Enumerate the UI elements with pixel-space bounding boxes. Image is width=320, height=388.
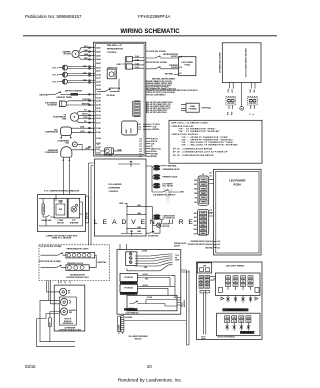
- svg-text:CONTROL: CONTROL: [107, 52, 118, 54]
- ice maker connector left: [226, 83, 236, 116]
- dispenser control title: [118, 161, 140, 167]
- lmp riser wires: [204, 277, 216, 335]
- svg-text:REFRIGERATOR: REFRIGERATOR: [107, 47, 123, 50]
- svg-text:COM: COM: [83, 117, 88, 119]
- board right edge pin labels for output rows: [139, 137, 142, 158]
- ice n water solenoid: [45, 99, 95, 107]
- svg-text:LINE: LINE: [228, 89, 230, 92]
- svg-text:NEUTRAL: NEUTRAL: [40, 93, 50, 96]
- FF door switch schem: [41, 246, 66, 255]
- svg-text:EMF-2600++ V5: EMF-2600++ V5: [107, 45, 123, 47]
- svg-text:J2-7: J2-7: [139, 156, 142, 158]
- board left pin labels: [96, 46, 101, 154]
- title rule: [23, 35, 277, 37]
- thermistor NTC 3: [53, 79, 95, 84]
- svg-text:J3-A2: J3-A2: [96, 97, 101, 100]
- display electronics box 1 wires: [138, 276, 176, 278]
- svg-text:RED: RED: [84, 58, 89, 60]
- standard compressor: [45, 147, 95, 161]
- strip wire color labels: [194, 180, 199, 236]
- svg-text:J2-1: J2-1: [138, 124, 141, 126]
- svg-text:DISPENSER VALVE: DISPENSER VALVE: [163, 168, 181, 171]
- svg-text:J1-7: J1-7: [139, 146, 142, 148]
- condenser fan: [57, 141, 90, 150]
- svg-text:INTERFACE: INTERFACE: [63, 322, 74, 325]
- svg-text:BRN: BRN: [194, 229, 197, 231]
- svg-text:J2-A3: J2-A3: [96, 114, 101, 117]
- svg-text:GND: GND: [145, 279, 148, 281]
- defrost switch wire: [97, 79, 120, 97]
- svg-text:J2-1: J2-1: [179, 73, 182, 75]
- svg-text:GROUNDED BACK PANEL: GROUNDED BACK PANEL: [219, 52, 222, 73]
- svg-text:J1-B1: J1-B1: [96, 153, 101, 155]
- svg-text:SW: SW: [69, 312, 72, 314]
- FF door switch schem wire: [146, 51, 179, 58]
- cube crush ice gate solenoid: [146, 207, 176, 234]
- svg-text:N: N: [253, 114, 255, 115]
- svg-text:SOME P.T.C. DEVICES: SOME P.T.C. DEVICES: [52, 238, 72, 240]
- svg-text:EMF-2600++ V5 ERROR CODES:: EMF-2600++ V5 ERROR CODES:: [172, 123, 209, 125]
- display led cluster box: [126, 252, 137, 266]
- svg-text:J2-A4: J2-A4: [96, 110, 101, 113]
- svg-text:J2-A5: J2-A5: [96, 107, 101, 110]
- svg-text:J3-A3: J3-A3: [96, 93, 101, 96]
- svg-text:LIGHT: LIGHT: [201, 339, 206, 341]
- connector strip J3 upper: [198, 172, 214, 205]
- svg-text:AUGER SW: AUGER SW: [148, 235, 158, 238]
- board defrost relay: [96, 144, 122, 156]
- led light wiring box: [196, 262, 262, 340]
- svg-text:+12V BL: +12V BL: [142, 285, 148, 287]
- svg-text:SOLENOID: SOLENOID: [47, 104, 57, 106]
- led module inner box lower: [217, 313, 261, 336]
- svg-text:(FF DOOR SW. SCHEM): (FF DOOR SW. SCHEM): [41, 246, 62, 248]
- svg-text:RUN: RUN: [59, 209, 62, 211]
- svg-text:ICE GATE SOL: ICE GATE SOL: [163, 217, 177, 220]
- svg-text:TO FF: TO FF: [175, 255, 179, 257]
- svg-text:NEUTRAL: NEUTRAL: [98, 261, 108, 264]
- svg-text:RED: RED: [194, 189, 197, 191]
- display board outline: [117, 250, 181, 315]
- svg-text:MOTOR: MOTOR: [163, 226, 170, 228]
- svg-text:RED: RED: [83, 66, 88, 68]
- svg-text:J1-B6: J1-B6: [96, 132, 101, 134]
- orange connector capsule: [48, 318, 51, 327]
- strip cell ticks: [200, 179, 206, 234]
- svg-text:TO FZ: TO FZ: [201, 337, 205, 339]
- door interface inner box: [59, 297, 76, 325]
- door interface box: [54, 285, 85, 331]
- right pin name rows: [146, 137, 162, 158]
- svg-text:EF CF - EVAPORATOR FAN ER: EF CF - EVAPORATOR FAN ERROR: [173, 154, 214, 157]
- dispenser board bottom exit wires: [120, 244, 127, 250]
- damper motor wires: [78, 46, 95, 60]
- svg-text:LIGHTS: LIGHTS: [171, 67, 179, 69]
- svg-text:FF DOOR SW. SCHEM: FF DOOR SW. SCHEM: [146, 51, 166, 53]
- refrigerator lights: [66, 248, 95, 258]
- dispenser valve solenoid bank: [146, 164, 178, 192]
- ground wire and symbol: [240, 83, 244, 111]
- svg-text:MODULE: MODULE: [135, 339, 142, 341]
- td line brown bracket: [146, 124, 160, 131]
- svg-text:MOTOR: MOTOR: [57, 222, 64, 224]
- PTC comp motor box: [54, 198, 67, 224]
- ice maker connector right: [248, 83, 258, 116]
- svg-text:NTC 2: NTC 2: [53, 74, 58, 76]
- main control board outline: [94, 42, 146, 156]
- svg-text:COMPRESSOR: COMPRESSOR: [45, 131, 59, 133]
- svg-text:J1-B8: J1-B8: [96, 128, 101, 130]
- svg-text:J2-5: J2-5: [139, 151, 142, 153]
- FZ evaporator fan: [53, 110, 95, 124]
- defrost heater circuit: [40, 89, 96, 99]
- svg-text:MULTI: MULTI: [82, 114, 88, 116]
- svg-text:WHT: WHT: [194, 221, 197, 223]
- freezer lights: [66, 263, 89, 271]
- svg-text:BROWN: BROWN: [153, 129, 160, 131]
- svg-text:LIGHTING MODULE ONLY: LIGHTING MODULE ONLY: [59, 330, 83, 332]
- door light lamp 1: [60, 288, 72, 295]
- svg-text:"SH" - FZ THERMISTOR "SHORT: "SH" - FZ THERMISTOR "SHORTED": [178, 131, 220, 133]
- svg-text:RED: RED: [83, 80, 88, 82]
- svg-text:EF CF - COMMUNICATION ERRO: EF CF - COMMUNICATION ERROR: [173, 147, 213, 150]
- svg-text:GRY: GRY: [194, 233, 197, 235]
- svg-text:WHT: WHT: [231, 112, 233, 115]
- svg-text:+12V BL: +12V BL: [141, 251, 147, 253]
- door light lamp 3: [61, 308, 77, 315]
- svg-text:FS BASE: FS BASE: [189, 107, 198, 110]
- svg-text:+12V BL: +12V BL: [142, 274, 148, 276]
- led power pcba bottom pin rows: [188, 240, 221, 249]
- svg-text:J2-A8: J2-A8: [96, 100, 101, 103]
- dispenser board line bus: [119, 203, 146, 236]
- svg-text:J2-A6: J2-A6: [96, 104, 101, 107]
- primary valve solenoid: [152, 174, 178, 180]
- led diode row lower: [226, 323, 250, 331]
- svg-text:ICE & WATER: ICE & WATER: [109, 183, 123, 186]
- connector text ticks: [200, 276, 252, 321]
- left vertical bus beside boards: [89, 163, 94, 245]
- connector strip J4 lower: [198, 209, 214, 235]
- error codes table: [169, 120, 262, 163]
- svg-text:RED: RED: [194, 213, 197, 215]
- svg-text:FPHS2399PF4A: FPHS2399PF4A: [138, 14, 171, 19]
- dispenser valve solenoid: [152, 165, 180, 171]
- svg-text:J4-B5: J4-B5: [96, 54, 101, 57]
- svg-text:J2-3: J2-3: [138, 129, 141, 131]
- display board caption: [124, 308, 138, 310]
- svg-text:SEE ICE MAKER WIRING DIAGRAM: SEE ICE MAKER WIRING DIAGRAM: [245, 48, 248, 77]
- svg-text:Publication No: 5995659157: Publication No: 5995659157: [25, 14, 82, 19]
- svg-text:DEFROST TERML: DEFROST TERML: [57, 97, 74, 99]
- display relay box: [127, 295, 177, 311]
- display electronics box 2: [120, 284, 138, 295]
- ice water fill valve solenoid: [152, 182, 174, 188]
- svg-text:J7-1: J7-1: [209, 172, 212, 174]
- svg-text:"SH_" - MID-LEVEL FF THERMI: "SH_" - MID-LEVEL FF THERMISTOR "SHORTED…: [181, 145, 239, 147]
- svg-text:J4-B2: J4-B2: [96, 66, 101, 69]
- auger switch: [146, 225, 161, 237]
- svg-text:J3-A7: J3-A7: [96, 77, 101, 80]
- svg-text:J7-6: J7-6: [209, 213, 212, 215]
- display electronics box 1: [120, 274, 138, 285]
- svg-text:NEUTRAL: NEUTRAL: [168, 164, 178, 167]
- watermark leaf: [163, 185, 174, 204]
- svg-text:LMP: LMP: [203, 266, 206, 268]
- svg-text:J2-2: J2-2: [138, 126, 141, 128]
- ice and water dispenser control board outline: [94, 159, 146, 236]
- svg-text:J2-6: J2-6: [139, 153, 142, 155]
- svg-text:NEUTRAL (WHITE) WIRES: NEUTRAL (WHITE) WIRES: [152, 78, 176, 81]
- PTC starter outer box: [38, 195, 86, 232]
- svg-text:FOR 115V COMPONENTS: FOR 115V COMPONENTS: [146, 94, 165, 96]
- svg-text:NTC 1: NTC 1: [53, 67, 58, 69]
- main fs base box: [186, 103, 199, 112]
- svg-text:DISPENSER: DISPENSER: [109, 187, 121, 189]
- svg-text:J4-B1: J4-B1: [96, 70, 101, 73]
- svg-text:GRN: GRN: [84, 54, 89, 56]
- main control relay box: [122, 121, 146, 135]
- svg-text:LED FZ LIGHT MODULE: LED FZ LIGHT MODULE: [218, 336, 235, 338]
- svg-text:PCBA: PCBA: [233, 183, 241, 187]
- svg-text:DOOR: DOOR: [174, 245, 180, 247]
- svg-text:BLK OR TIN CONNECTOR 1 (FZ): BLK OR TIN CONNECTOR 1 (FZ): [146, 104, 171, 106]
- svg-text:FRESH FOOD DISPLAY:: FRESH FOOD DISPLAY:: [172, 133, 200, 136]
- neutral wire to small led power pcba: [165, 72, 179, 75]
- svg-text:J3-A8: J3-A8: [96, 73, 101, 76]
- svg-text:LED POWER: LED POWER: [229, 179, 245, 183]
- svg-text:+12V BL: +12V BL: [146, 297, 152, 299]
- svg-text:03/15: 03/15: [25, 364, 36, 369]
- FZR door switch schem: [39, 261, 66, 268]
- HSC compressor: [45, 127, 95, 139]
- svg-text:PCBA: PCBA: [185, 64, 191, 67]
- svg-text:FZR DOOR SW. SCHEM: FZR DOOR SW. SCHEM: [146, 62, 167, 64]
- display relay box right pins: [174, 298, 181, 307]
- wires compressor legs into PTC box: [56, 161, 69, 201]
- svg-text:BLUE DOOR MULTI (FF SIDE): BLUE DOOR MULTI (FF SIDE): [146, 87, 169, 89]
- display electronics box 2 wires: [138, 276, 176, 298]
- svg-text:ICE WATER FILL SWITCH: ICE WATER FILL SWITCH: [153, 193, 176, 196]
- lmp connector box: [198, 263, 212, 273]
- svg-text:P.T.C. STARTER WITH RUN CAPACI: P.T.C. STARTER WITH RUN CAPACITOR: [44, 190, 80, 193]
- damper motor: [63, 50, 80, 57]
- svg-text:J3-A6: J3-A6: [96, 80, 101, 83]
- svg-text:REFRIGERATOR LIGHTS: REFRIGERATOR LIGHTS: [67, 248, 90, 251]
- svg-text:L1: L1: [249, 113, 251, 115]
- svg-text:CONTROL: CONTROL: [109, 191, 120, 193]
- FZR door switch schem wire: [146, 62, 179, 69]
- svg-text:J2-8: J2-8: [179, 57, 182, 59]
- svg-text:J4-B7: J4-B7: [96, 46, 101, 49]
- board edge ladder connector: [133, 101, 140, 117]
- svg-text:J2-A1: J2-A1: [96, 121, 101, 124]
- led module inner box upper: [216, 273, 261, 296]
- led module connectors lower: [225, 316, 251, 331]
- freezer light bar: [240, 331, 254, 334]
- svg-text:J2-A2: J2-A2: [96, 117, 101, 120]
- incandescent lighting dashed box: [39, 245, 110, 281]
- board internal line relay cluster: [117, 55, 145, 69]
- svg-text:GRN: GRN: [194, 193, 197, 195]
- small LED power pcba box: [179, 57, 196, 76]
- svg-text:J7-8: J7-8: [209, 210, 212, 212]
- svg-text:FREEZER DISPLAY:: FREEZER DISPLAY:: [172, 125, 195, 128]
- svg-text:OPTIONAL: OPTIONAL: [202, 107, 212, 110]
- neutral white wires legend: [146, 78, 198, 97]
- display board top wires to door comb: [127, 251, 179, 271]
- svg-text:LINE: LINE: [250, 89, 252, 92]
- led diode row upper: [221, 296, 258, 303]
- svg-text:J3-A5: J3-A5: [96, 84, 101, 87]
- svg-text:NEU: NEU: [254, 89, 256, 92]
- svg-text:LIGHTS: LIGHTS: [171, 56, 179, 58]
- grounded back panel box: [219, 43, 261, 83]
- svg-text:J4-B6: J4-B6: [96, 50, 101, 53]
- svg-text:YELLOW DOOR MULTI (FZ SIDE): YELLOW DOOR MULTI (FZ SIDE): [146, 85, 171, 87]
- svg-text:RED: RED: [83, 73, 88, 75]
- svg-text:TD (115V): TD (115V): [153, 124, 161, 126]
- svg-text:J4-B4: J4-B4: [96, 58, 101, 61]
- svg-text:YEL: YEL: [195, 197, 198, 199]
- svg-text:OVERLOAD: OVERLOAD: [41, 219, 52, 222]
- svg-text:BLK OR TIN CONNECTOR 2: BLK OR TIN CONNECTOR 2: [146, 110, 167, 112]
- svg-text:CONTROL: CONTROL: [82, 99, 92, 101]
- dispenser module connector bundle: [118, 316, 124, 333]
- svg-text:COMPRESSOR: COMPRESSOR: [45, 152, 59, 154]
- svg-text:LED LIGHT WIRING: LED LIGHT WIRING: [226, 266, 245, 268]
- riser wires top stubs: [58, 281, 70, 284]
- defrost relay upper: [107, 67, 118, 78]
- svg-text:J3-A4: J3-A4: [96, 88, 101, 91]
- svg-text:COM: COM: [80, 131, 85, 133]
- led module connectors upper: [219, 276, 260, 293]
- lmp pin stack: [199, 275, 210, 293]
- thermistor NTC 2: [53, 72, 95, 77]
- svg-text:WIRING SCHEMATIC: WIRING SCHEMATIC: [120, 29, 180, 35]
- LED power pcba board outline: [214, 169, 262, 255]
- wires from display board to led light wiring: [181, 270, 189, 345]
- svg-text:EF CF - COMMUNICATION LOST: EF CF - COMMUNICATION LOST AT POWER UP: [173, 151, 228, 154]
- neutral wire from dispenser module: [119, 316, 186, 334]
- neutral bus of lighting module: [89, 255, 96, 267]
- svg-text:J7-3: J7-3: [209, 175, 212, 177]
- refrigerator lights bar: [222, 308, 248, 311]
- auger motor: [152, 223, 170, 228]
- svg-text:NTC 3: NTC 3: [53, 81, 58, 83]
- svg-text:LIGHT: LIGHT: [175, 260, 179, 262]
- svg-text:WHT: WHT: [194, 184, 197, 186]
- left riser wires to door interface: [37, 281, 75, 347]
- PTC starter device box: [68, 198, 80, 224]
- thermistor NTC 1: [53, 65, 95, 70]
- svg-text:FREEZER LT: FREEZER LT: [242, 332, 251, 334]
- svg-text:LIGHTING MODULE ONLY: LIGHTING MODULE ONLY: [66, 277, 90, 279]
- fill valve line wire and switch: [152, 190, 184, 197]
- svg-text:BLU: BLU: [194, 202, 197, 204]
- vertical wire label capsule: [86, 196, 89, 223]
- svg-text:MOTOR: MOTOR: [64, 54, 71, 56]
- svg-text:J1-B4: J1-B4: [96, 137, 101, 140]
- svg-text:FILL VALVE: FILL VALVE: [163, 185, 174, 188]
- svg-text:(FZR DOOR SW. SCHEM): (FZR DOOR SW. SCHEM): [39, 261, 61, 263]
- main fs base option rows: [146, 101, 212, 114]
- svg-text:J1-B2: J1-B2: [96, 147, 101, 149]
- svg-text:J4-B3: J4-B3: [96, 62, 101, 65]
- svg-text:DEFROST HEATER: DEFROST HEATER: [65, 89, 82, 92]
- svg-text:BROWN: BROWN: [151, 156, 158, 158]
- svg-text:STARTER: STARTER: [70, 221, 79, 224]
- svg-text:NEUTRAL: NEUTRAL: [165, 72, 175, 75]
- svg-text:RED THERMISTOR SENSE (LOW VOLT: RED THERMISTOR SENSE (LOW VOLT): [146, 88, 176, 90]
- svg-text:Rendered by Leadventure, Inc.: Rendered by Leadventure, Inc.: [118, 378, 182, 383]
- svg-text:J3-2: J3-2: [97, 144, 100, 146]
- PTC overload device: [41, 204, 52, 222]
- svg-text:BLK: BLK: [84, 46, 88, 48]
- PTC internal wires: [39, 199, 83, 226]
- svg-text:J1-5: J1-5: [139, 141, 142, 143]
- svg-text:PRIMARY VALVE: PRIMARY VALVE: [163, 176, 179, 179]
- door light lamp 2: [61, 299, 73, 306]
- svg-text:J1-6: J1-6: [139, 143, 142, 145]
- svg-text:20: 20: [147, 364, 152, 369]
- svg-text:J3: J3: [202, 174, 204, 176]
